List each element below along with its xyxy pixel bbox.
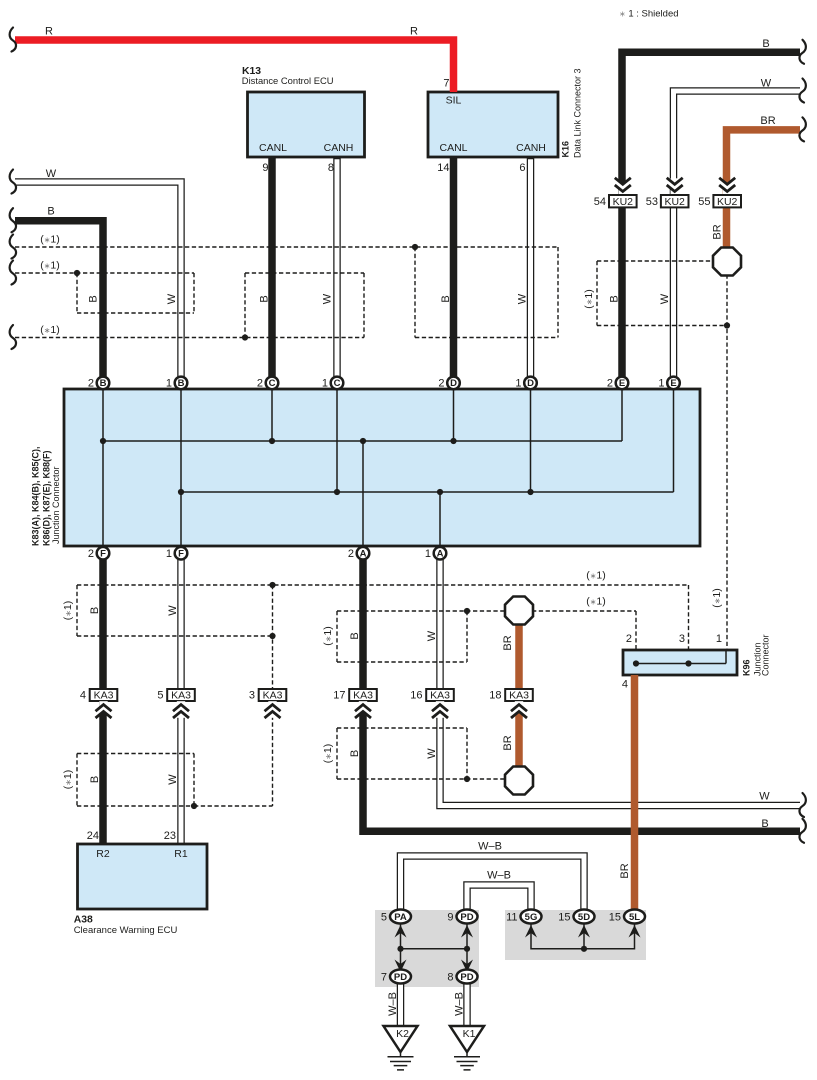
svg-text:15: 15 bbox=[558, 912, 570, 924]
junction pin 1A bbox=[425, 547, 446, 560]
svg-text:W–B: W–B bbox=[478, 841, 502, 853]
svg-text:F: F bbox=[100, 549, 106, 560]
svg-text:W–B: W–B bbox=[487, 870, 511, 882]
svg-text:W: W bbox=[426, 630, 438, 641]
wire B from 2F to A38 R2 (black) bbox=[99, 560, 107, 846]
svg-text:1: 1 bbox=[515, 378, 521, 390]
svg-text:K16: K16 bbox=[561, 141, 571, 158]
svg-text:B: B bbox=[761, 818, 768, 830]
wire W top right through KU2 53 to 1E (white) bbox=[674, 91, 802, 378]
shield dashed drop from octagon to K96 pin 1 bbox=[726, 275, 728, 651]
svg-text:BR: BR bbox=[712, 224, 724, 239]
svg-text:18: 18 bbox=[489, 689, 501, 701]
shield dashed box D around K16 wires bbox=[415, 247, 558, 338]
connector KA3 pin 17 bbox=[333, 689, 377, 718]
svg-text:SIL: SIL bbox=[446, 95, 462, 107]
svg-text:2: 2 bbox=[438, 378, 444, 390]
junction pin 2B bbox=[88, 377, 109, 390]
svg-text:Junction Connector: Junction Connector bbox=[51, 466, 61, 544]
svg-text:C: C bbox=[269, 378, 276, 389]
svg-text:A: A bbox=[437, 549, 444, 560]
ground block shading right bbox=[505, 910, 646, 960]
svg-text:B: B bbox=[89, 776, 101, 783]
svg-text:8: 8 bbox=[328, 162, 334, 174]
pin oval 15 5D bbox=[558, 910, 594, 924]
ground symbol K1 bbox=[450, 1026, 484, 1070]
svg-text:2: 2 bbox=[257, 378, 263, 390]
node dot box A lower bbox=[464, 776, 470, 782]
arrow up to PA bbox=[395, 925, 407, 938]
svg-text:BR: BR bbox=[760, 115, 775, 127]
pin oval 9 PD bbox=[447, 910, 477, 924]
shield octagon below KA3 18 bbox=[505, 767, 533, 795]
connector KU2 pin 53 bbox=[646, 178, 689, 208]
svg-text:KA3: KA3 bbox=[430, 689, 450, 701]
svg-text:W: W bbox=[322, 293, 334, 304]
svg-text:E: E bbox=[670, 378, 676, 389]
break symbol left dashed 3 bbox=[10, 325, 16, 349]
break symbol right B wire bottom bbox=[799, 819, 805, 843]
ECU K13 Distance Control ECU box bbox=[242, 66, 365, 157]
svg-text:KA3: KA3 bbox=[509, 689, 529, 701]
svg-text:B: B bbox=[259, 295, 271, 302]
note: shielded legend bbox=[619, 9, 679, 20]
svg-text:E: E bbox=[619, 378, 625, 389]
junction pin 2D bbox=[438, 377, 459, 390]
shield dashed box C around K13 wires bbox=[245, 273, 364, 338]
svg-text:KA3: KA3 bbox=[171, 689, 191, 701]
svg-text:KU2: KU2 bbox=[613, 196, 634, 208]
junction pin 2C bbox=[257, 377, 278, 390]
svg-text:B: B bbox=[88, 295, 100, 302]
svg-text:R1: R1 bbox=[174, 848, 188, 860]
connector KA3 pin 5 bbox=[157, 689, 194, 718]
svg-text:W: W bbox=[167, 605, 179, 616]
connector KU2 pin 55 bbox=[698, 178, 741, 208]
svg-text:∗ 1 : Shielded: ∗ 1 : Shielded bbox=[619, 9, 679, 20]
svg-text:D: D bbox=[527, 378, 534, 389]
pin oval 8 PD bbox=[447, 970, 477, 984]
svg-text:R: R bbox=[45, 26, 53, 38]
svg-text:B: B bbox=[440, 295, 452, 302]
svg-text:W: W bbox=[46, 168, 57, 180]
break symbol left dashed 2 bbox=[10, 261, 16, 285]
arrow up to 5L bbox=[629, 925, 641, 938]
svg-text:W–B: W–B bbox=[387, 992, 399, 1016]
svg-text:9: 9 bbox=[262, 162, 268, 174]
shield dashed drain wire through KA3 3 bbox=[272, 585, 274, 806]
shield dashed line 2 from left edge, box B top bbox=[15, 272, 194, 274]
svg-text:W: W bbox=[659, 293, 671, 304]
svg-text:KA3: KA3 bbox=[353, 689, 373, 701]
svg-text:KA3: KA3 bbox=[263, 689, 283, 701]
shield dashed line lower 1 from box F to K96 pin 3 bbox=[77, 585, 689, 650]
svg-text:(∗1): (∗1) bbox=[62, 770, 74, 790]
arrow up to PD 9 bbox=[461, 925, 473, 938]
wire BR octagon to octagon through KA3 18 (brown) bbox=[515, 622, 523, 768]
connector K16 Data Link Connector 3 box bbox=[428, 68, 583, 158]
svg-text:W: W bbox=[517, 293, 529, 304]
svg-text:B: B bbox=[349, 632, 361, 639]
svg-text:55: 55 bbox=[698, 196, 710, 208]
svg-text:5L: 5L bbox=[629, 912, 640, 923]
svg-text:A38: A38 bbox=[74, 915, 93, 926]
svg-text:3: 3 bbox=[679, 633, 685, 645]
junction pin 2A bbox=[348, 547, 369, 560]
svg-text:CANL: CANL bbox=[259, 142, 287, 154]
svg-text:2: 2 bbox=[626, 633, 632, 645]
node dot box F bottom bbox=[269, 633, 275, 639]
svg-text:K2: K2 bbox=[396, 1028, 409, 1040]
break symbol left B wire bbox=[10, 208, 16, 232]
wire W left to pin 1B (white) bbox=[15, 182, 181, 378]
svg-text:17: 17 bbox=[333, 689, 345, 701]
connector KU2 pin 54 bbox=[594, 178, 637, 208]
wire R from left edge to K16 SIL pin 7 (red) bbox=[15, 40, 454, 92]
node dot box F lower to drain bbox=[191, 803, 197, 809]
wire BR from K96 pin 4 to 5L (brown) bbox=[631, 675, 639, 911]
svg-text:(∗1): (∗1) bbox=[322, 626, 334, 646]
shield dashed box A upper around 2A/1A wires bbox=[337, 611, 467, 662]
svg-text:B: B bbox=[178, 378, 185, 389]
svg-text:2: 2 bbox=[607, 378, 613, 390]
svg-text:A: A bbox=[360, 549, 367, 560]
svg-text:BR: BR bbox=[619, 863, 631, 878]
svg-text:(∗1): (∗1) bbox=[711, 588, 723, 608]
svg-text:54: 54 bbox=[594, 196, 606, 208]
node dot branch to KA3 3 bbox=[269, 582, 275, 588]
junction pin 1E bbox=[658, 377, 679, 390]
connector KA3 pin 16 bbox=[410, 689, 454, 718]
svg-text:K83(A), K84(B), K85(C),: K83(A), K84(B), K85(C), bbox=[31, 446, 41, 546]
svg-text:14: 14 bbox=[437, 162, 449, 174]
ground block internal wiring left bbox=[397, 924, 470, 970]
svg-text:Data Link Connector 3: Data Link Connector 3 bbox=[573, 68, 583, 158]
svg-text:PD: PD bbox=[394, 972, 407, 983]
connector KA3 pin 4 bbox=[80, 689, 117, 718]
svg-text:5: 5 bbox=[157, 689, 163, 701]
break symbol left dashed 1 bbox=[10, 235, 16, 259]
svg-text:PD: PD bbox=[460, 972, 473, 983]
svg-text:(∗1): (∗1) bbox=[40, 260, 60, 272]
node dot on dashed line 1 bbox=[412, 244, 418, 250]
svg-text:7: 7 bbox=[381, 972, 387, 984]
connector KA3 pin 3 bbox=[249, 689, 286, 718]
shield dashed box F around F wires bbox=[77, 585, 273, 636]
junction connector K83-K88 box bbox=[31, 389, 701, 546]
arrow up to 5D bbox=[578, 925, 590, 938]
shield dashed box F lower before A38 bbox=[77, 754, 194, 807]
svg-text:1: 1 bbox=[322, 378, 328, 390]
node dot on dashed line 2 bbox=[74, 270, 80, 276]
svg-text:2: 2 bbox=[88, 548, 94, 560]
shield dashed box A lower bbox=[337, 728, 506, 779]
svg-text:CANH: CANH bbox=[324, 142, 354, 154]
wire W-B from PA to 5D (white) bbox=[401, 856, 585, 912]
shield dashed line 3 from left edge, box C bottom bbox=[15, 337, 364, 339]
junction pin 1B bbox=[166, 377, 187, 390]
svg-text:5G: 5G bbox=[525, 912, 538, 923]
svg-text:CANL: CANL bbox=[439, 142, 467, 154]
wire B from K13 CANL pin 9 to 2C (black) bbox=[268, 157, 276, 377]
svg-text:CANH: CANH bbox=[516, 142, 546, 154]
svg-text:B: B bbox=[349, 750, 361, 757]
svg-text:(∗1): (∗1) bbox=[40, 324, 60, 336]
svg-text:R: R bbox=[410, 26, 418, 38]
connector KA3 pin 18 bbox=[489, 689, 533, 718]
svg-text:KU2: KU2 bbox=[717, 196, 738, 208]
svg-text:KU2: KU2 bbox=[664, 196, 685, 208]
junction pin 2F bbox=[88, 547, 109, 560]
wire W from 1F to A38 R1 (white) bbox=[177, 559, 185, 846]
svg-text:1: 1 bbox=[166, 378, 172, 390]
wire W-B from PD 7 to ground K2 (white) bbox=[397, 983, 405, 1028]
shield dashed line lower 2 from box A to octagon and K96 pin 2 bbox=[337, 611, 636, 650]
svg-text:4: 4 bbox=[80, 689, 86, 701]
ground block shading left bbox=[375, 910, 479, 987]
svg-text:(∗1): (∗1) bbox=[40, 234, 60, 246]
svg-text:F: F bbox=[178, 549, 184, 560]
junction pin 1D bbox=[515, 377, 536, 390]
svg-text:B: B bbox=[89, 607, 101, 614]
svg-text:B: B bbox=[47, 206, 54, 218]
svg-text:(∗1): (∗1) bbox=[322, 744, 334, 764]
svg-text:K86(D), K87(E), K88(F): K86(D), K87(E), K88(F) bbox=[42, 450, 52, 546]
break symbol right W wire bottom bbox=[799, 793, 805, 817]
svg-text:B: B bbox=[100, 378, 107, 389]
junction connector internal bus lines bbox=[100, 389, 674, 546]
svg-text:1: 1 bbox=[658, 378, 664, 390]
shield dashed box E around KU2 B/W wires bbox=[597, 261, 727, 326]
svg-text:W–B: W–B bbox=[454, 992, 466, 1016]
svg-text:15: 15 bbox=[609, 912, 621, 924]
wire W from 1A to right edge (white) bbox=[440, 559, 801, 806]
break symbol right B wire top bbox=[799, 40, 805, 64]
svg-text:(∗1): (∗1) bbox=[586, 596, 606, 608]
svg-text:W: W bbox=[759, 791, 770, 803]
break symbol right BR wire bbox=[799, 117, 805, 141]
wire B left to pin 2B (black) bbox=[15, 221, 103, 377]
shield octagon above KA3 18 bbox=[505, 597, 533, 625]
junction connector K96 box bbox=[622, 633, 771, 691]
svg-text:7: 7 bbox=[443, 78, 449, 90]
svg-text:K96: K96 bbox=[742, 659, 752, 676]
wire W-B from PD 8 to ground K1 (white) bbox=[463, 983, 471, 1028]
svg-text:Connector: Connector bbox=[761, 634, 771, 676]
svg-text:Distance Control ECU: Distance Control ECU bbox=[242, 75, 334, 86]
svg-text:BR: BR bbox=[502, 635, 514, 650]
pin oval 11 5G bbox=[506, 910, 541, 924]
ECU A38 Clearance Warning ECU box bbox=[74, 844, 207, 936]
svg-text:PA: PA bbox=[394, 912, 407, 923]
svg-text:K1: K1 bbox=[463, 1028, 476, 1040]
svg-text:11: 11 bbox=[506, 912, 517, 924]
shield dashed line 1 from left edge to box D bbox=[15, 246, 558, 248]
node dot on dashed line 3 bbox=[242, 334, 248, 340]
svg-text:KA3: KA3 bbox=[94, 689, 114, 701]
svg-text:5D: 5D bbox=[578, 912, 590, 923]
svg-text:B: B bbox=[762, 38, 769, 50]
wire W-B from PD 9 to 5G (white) bbox=[467, 885, 531, 912]
svg-text:(∗1): (∗1) bbox=[62, 601, 74, 621]
wire BR top right through KU2 55 to octagon (brown) bbox=[727, 130, 801, 248]
wire W from K16 CANH pin 6 to 1D (white) bbox=[527, 157, 535, 378]
node dot box A upper bbox=[464, 608, 470, 614]
junction pin 1F bbox=[166, 547, 187, 560]
svg-text:(∗1): (∗1) bbox=[583, 289, 595, 309]
svg-text:D: D bbox=[450, 378, 457, 389]
svg-text:W: W bbox=[167, 774, 179, 785]
junction pin 2E bbox=[607, 377, 628, 390]
arrow down to PD 7 bbox=[395, 960, 407, 973]
arrow down to PD 8 bbox=[461, 960, 473, 973]
svg-text:1: 1 bbox=[716, 633, 722, 645]
svg-text:1: 1 bbox=[425, 548, 431, 560]
svg-text:R2: R2 bbox=[96, 848, 110, 860]
shield octagon top right bbox=[713, 248, 741, 276]
svg-text:23: 23 bbox=[164, 830, 176, 842]
shield dashed box B around left B/W wires bbox=[77, 273, 194, 313]
svg-text:C: C bbox=[334, 378, 341, 389]
svg-text:3: 3 bbox=[249, 689, 255, 701]
break symbol left W wire bbox=[10, 170, 16, 194]
svg-text:24: 24 bbox=[87, 830, 99, 842]
svg-text:5: 5 bbox=[381, 912, 387, 924]
junction pin 1C bbox=[322, 377, 343, 390]
wire B from 2A to right edge (black) bbox=[363, 560, 800, 832]
wire W from K13 CANH pin 8 to 1C (white) bbox=[333, 157, 341, 378]
svg-text:2: 2 bbox=[88, 378, 94, 390]
pin oval 15 5L bbox=[609, 910, 645, 924]
break symbol left red wire bbox=[10, 28, 16, 52]
svg-text:W: W bbox=[761, 78, 772, 90]
svg-text:BR: BR bbox=[502, 735, 514, 750]
svg-text:9: 9 bbox=[447, 912, 453, 924]
svg-text:B: B bbox=[609, 295, 621, 302]
shield dashed link drain to box F lower bbox=[194, 805, 273, 807]
svg-text:6: 6 bbox=[519, 162, 525, 174]
node dot octagon drain bbox=[724, 322, 730, 328]
pin oval 7 PD bbox=[381, 970, 411, 984]
svg-text:2: 2 bbox=[348, 548, 354, 560]
svg-text:W: W bbox=[166, 293, 178, 304]
svg-text:4: 4 bbox=[622, 679, 628, 691]
break symbol right W wire top bbox=[799, 79, 805, 103]
svg-text:W: W bbox=[426, 748, 438, 759]
arrow up to 5G bbox=[525, 925, 537, 938]
svg-text:16: 16 bbox=[410, 689, 422, 701]
svg-text:53: 53 bbox=[646, 196, 658, 208]
svg-text:1: 1 bbox=[166, 548, 172, 560]
pin oval 5 PA bbox=[381, 910, 411, 924]
ground symbol K2 bbox=[384, 1026, 418, 1070]
wire B from K16 CANL pin 14 to 2D (black) bbox=[450, 157, 458, 377]
svg-text:Clearance Warning ECU: Clearance Warning ECU bbox=[74, 925, 178, 936]
svg-text:(∗1): (∗1) bbox=[586, 570, 606, 582]
wire B top right through KU2 54 to 2E (black) bbox=[622, 52, 800, 376]
svg-text:PD: PD bbox=[460, 912, 473, 923]
ground block internal wiring right bbox=[531, 924, 635, 952]
svg-text:8: 8 bbox=[447, 972, 453, 984]
